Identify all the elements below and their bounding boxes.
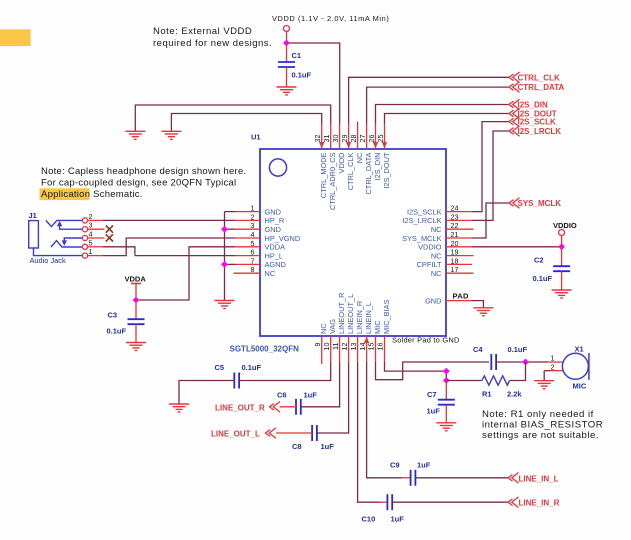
svg-text:17: 17: [451, 265, 459, 274]
svg-text:22: 22: [451, 221, 459, 230]
microphone X1: [562, 353, 588, 379]
wire I2S_DIN net: [376, 105, 510, 124]
svg-text:C4: C4: [473, 345, 483, 354]
off-page connector I2S_DIN: [509, 99, 520, 110]
capacitor C8: [312, 425, 317, 441]
junction GND net pin 7: [221, 261, 228, 268]
svg-text:NC: NC: [431, 269, 442, 278]
wire C10 to connector: [392, 501, 508, 503]
svg-text:For cap-coupled design, see 20: For cap-coupled design, see 20QFN Typica…: [41, 178, 236, 189]
svg-text:31: 31: [322, 135, 331, 143]
capacitor C4: [491, 354, 496, 370]
wire VDDA net to pin 5: [136, 247, 235, 300]
svg-text:18: 18: [451, 256, 459, 265]
svg-text:X1: X1: [575, 345, 584, 354]
svg-text:1: 1: [89, 247, 93, 256]
svg-text:CTRL_CLK: CTRL_CLK: [518, 73, 560, 82]
wire VAG net: [239, 362, 331, 381]
off-page connector LINE_OUT_R: [270, 402, 281, 413]
junction VDDD node: [283, 40, 290, 47]
U1 pin 7 (AGND): [235, 256, 286, 269]
wire CTRL_MODE to ground: [171, 114, 321, 132]
wire SYS_MCLK net: [472, 203, 509, 238]
svg-text:12: 12: [340, 343, 349, 351]
U1 pin 3 (GND): [235, 221, 281, 234]
off-page connector I2S_DOUT: [509, 108, 520, 119]
svg-text:11: 11: [331, 343, 340, 350]
ground (X1): [534, 381, 554, 389]
svg-text:VAG: VAG: [328, 319, 337, 334]
svg-text:1uF: 1uF: [417, 460, 431, 469]
capacitor C9: [411, 470, 416, 486]
U1 pin 17 (NC): [431, 265, 474, 278]
connector J1 audio jack: [29, 220, 83, 255]
U1 pin 1 (GND): [235, 204, 281, 217]
svg-text:I2S_DIN: I2S_DIN: [373, 153, 382, 181]
svg-text:13: 13: [349, 343, 358, 351]
jack pin 3: [82, 227, 87, 232]
wire GND net (pins 1,3,7): [224, 212, 226, 301]
svg-text:SYS_MCLK: SYS_MCLK: [518, 199, 562, 208]
off-page connector I2S_SCLK: [509, 116, 520, 127]
junction GND net pin 3: [221, 226, 228, 233]
wire LINEOUT_R net: [301, 362, 340, 407]
svg-text:LINEIN_R: LINEIN_R: [355, 301, 364, 334]
svg-text:1uF: 1uF: [304, 390, 318, 399]
U1 pin 5 (VDDA): [235, 239, 285, 252]
junction MIC_BIAS / C7: [443, 377, 450, 384]
svg-text:1uF: 1uF: [427, 407, 441, 416]
U1 pin 2 (HP_R): [235, 212, 284, 225]
U1 pin 28 (NC): [349, 122, 364, 164]
svg-text:C3: C3: [108, 311, 118, 320]
svg-text:VDDIO: VDDIO: [553, 221, 577, 230]
svg-text:NC: NC: [431, 251, 442, 260]
svg-text:MIC: MIC: [373, 320, 382, 334]
svg-text:1: 1: [551, 354, 555, 363]
svg-text:U1: U1: [251, 133, 261, 142]
svg-text:I2S_SCLK: I2S_SCLK: [518, 118, 556, 127]
svg-text:internal BIAS_RESISTOR: internal BIAS_RESISTOR: [482, 419, 603, 430]
svg-text:NC: NC: [355, 152, 364, 163]
svg-text:VDDA: VDDA: [125, 274, 147, 283]
svg-text:C8: C8: [292, 442, 302, 451]
svg-text:4: 4: [89, 230, 93, 239]
U1 pin 6 (HP_L): [235, 248, 283, 261]
junction VDDA node: [133, 297, 140, 304]
svg-text:C9: C9: [390, 460, 400, 469]
U1 pin 25 (I2S_DOUT): [376, 124, 391, 189]
ground (PAD): [473, 308, 493, 316]
svg-text:LINEOUT_L: LINEOUT_L: [346, 294, 355, 334]
U1 pin 12 (LINEOUT_L): [340, 294, 355, 362]
no-connect X jack pin 4: [106, 234, 113, 241]
U1 pin 18 (CPFILT): [417, 256, 472, 269]
U1 pin 11 (LINEOUT_R): [331, 293, 346, 362]
svg-text:VDDD (1.1V - 2.0V, 11mA Min): VDDD (1.1V - 2.0V, 11mA Min): [272, 14, 389, 23]
U1 pin 24 (I2S_SCLK): [407, 204, 472, 217]
U1 pin 9 (NC): [313, 323, 328, 364]
svg-text:GND: GND: [265, 207, 281, 216]
off-page connector LINE_IN_L: [508, 473, 519, 484]
svg-text:23: 23: [451, 212, 459, 221]
svg-text:settings are not suitable.: settings are not suitable.: [482, 430, 599, 441]
svg-text:PAD: PAD: [453, 291, 469, 300]
svg-text:CTRL_ADR0_CS: CTRL_ADR0_CS: [328, 152, 337, 210]
svg-text:32: 32: [313, 135, 322, 143]
svg-text:10: 10: [322, 343, 331, 351]
U1 pin 13 (LINEIN_R): [349, 301, 364, 362]
svg-text:LINE_IN_L: LINE_IN_L: [519, 474, 559, 483]
wire CTRL_CLK net: [349, 77, 509, 123]
svg-text:2: 2: [251, 212, 255, 221]
wire I2S_DOUT net: [385, 114, 510, 124]
svg-text:27: 27: [358, 135, 367, 143]
svg-text:LINEIN_L: LINEIN_L: [364, 302, 373, 334]
svg-text:24: 24: [451, 204, 459, 213]
wire I2S_LRCLK net: [472, 131, 509, 220]
wire LINEOUT_L net: [317, 362, 349, 433]
svg-text:HP_VGND: HP_VGND: [265, 234, 301, 243]
off-page connector LINE_OUT_L: [266, 428, 277, 439]
svg-text:MIC: MIC: [573, 382, 587, 391]
svg-text:Audio Jack: Audio Jack: [30, 256, 66, 265]
U1 pin 26 (I2S_DIN): [367, 124, 382, 181]
U1 pin 19 (NC): [431, 248, 474, 261]
no-connect X jack pin 3: [106, 226, 113, 233]
U1 pin PAD (GND): [425, 296, 472, 305]
junction MIC_BIAS corner: [443, 368, 450, 375]
svg-text:5: 5: [89, 238, 93, 247]
off-page connector I2S_LRCLK: [509, 126, 520, 137]
ground (C5): [169, 404, 189, 412]
wire HP_VGND net (jack 1 to pin 4): [103, 238, 235, 256]
U1 pin 30 (VDDD): [331, 124, 346, 174]
off-page connector SYS_MCLK: [509, 198, 520, 209]
svg-text:19: 19: [451, 248, 459, 257]
svg-text:NC: NC: [265, 269, 276, 278]
wire R1 to X1 node: [510, 362, 526, 381]
svg-text:30: 30: [331, 135, 340, 143]
svg-text:SGTL5000_32QFN: SGTL5000_32QFN: [230, 344, 300, 353]
U1 pin 16 (MIC_BIAS): [376, 299, 391, 362]
svg-text:29: 29: [340, 135, 349, 143]
svg-text:C2: C2: [534, 256, 544, 265]
svg-text:VDDD: VDDD: [337, 153, 346, 174]
jack pin 2: [82, 218, 87, 223]
jack pin 1: [82, 253, 87, 258]
svg-text:25: 25: [376, 135, 385, 143]
svg-text:LINE_OUT_R: LINE_OUT_R: [215, 403, 265, 412]
wire C5 to ground: [179, 381, 234, 405]
svg-text:CTRL_MODE: CTRL_MODE: [319, 152, 328, 198]
wire C4 to X1: [496, 361, 548, 363]
svg-text:C6: C6: [277, 390, 287, 399]
wire X1 pin 2 to ground: [550, 370, 563, 372]
svg-text:SYS_MCLK: SYS_MCLK: [402, 234, 442, 243]
wire CTRL_DATA net: [367, 87, 509, 123]
svg-text:HP_L: HP_L: [265, 251, 284, 260]
svg-text:0.1uF: 0.1uF: [107, 327, 127, 336]
off-page connector CTRL_DATA: [509, 82, 520, 93]
note: capless headphone design (highlighted word Application): [40, 188, 90, 200]
svg-text:3: 3: [251, 221, 255, 230]
U1 pin 15 (MIC): [367, 320, 382, 362]
svg-text:NC: NC: [319, 323, 328, 334]
svg-text:CTRL_CLK: CTRL_CLK: [346, 152, 355, 190]
svg-text:Application Schematic.: Application Schematic.: [41, 189, 143, 200]
ground (CTRL_MODE): [161, 131, 181, 139]
svg-text:I2S_DOUT: I2S_DOUT: [382, 152, 391, 189]
off-page connector CTRL_CLK: [509, 72, 520, 83]
wire HP_R net (jack 2 to pin 2): [103, 219, 235, 221]
wire MIC_BIAS net (pin 16): [385, 362, 447, 381]
svg-text:I2S_DIN: I2S_DIN: [518, 101, 548, 110]
svg-text:21: 21: [451, 230, 459, 239]
wire CTRL_ADR0_CS to ground: [135, 105, 330, 131]
svg-text:6: 6: [251, 248, 255, 257]
wire VDDD net to pin 30: [287, 43, 340, 124]
ground (C3): [126, 343, 146, 351]
svg-text:VDDIO: VDDIO: [418, 243, 442, 252]
wire I2S_SCLK net: [472, 122, 509, 212]
jack pin 5: [82, 244, 87, 249]
svg-text:CPFILT: CPFILT: [417, 260, 442, 269]
junction VDDIO node: [558, 243, 565, 250]
svg-text:1: 1: [251, 204, 255, 213]
svg-text:20: 20: [451, 239, 459, 248]
svg-text:LINE_OUT_L: LINE_OUT_L: [211, 430, 260, 439]
svg-text:LINEOUT_R: LINEOUT_R: [337, 293, 346, 334]
svg-text:8: 8: [251, 265, 255, 274]
off-page connector LINE_IN_R: [508, 497, 519, 508]
svg-text:7: 7: [251, 256, 255, 265]
wire MIC net (pin 15): [376, 362, 490, 380]
svg-text:GND: GND: [425, 296, 441, 305]
wire VDDIO net: [472, 246, 562, 248]
capacitor C3: [135, 300, 137, 319]
svg-text:0.1uF: 0.1uF: [292, 71, 312, 80]
svg-text:I2S_LRCLK: I2S_LRCLK: [518, 127, 562, 136]
wire LINEIN_R net: [358, 362, 380, 502]
svg-text:CTRL_DATA: CTRL_DATA: [364, 152, 373, 194]
ground (CTRL_ADR0_CS): [125, 131, 145, 139]
capacitor C2: [561, 247, 563, 266]
svg-text:2: 2: [89, 212, 93, 221]
U1 pin 14 (LINEIN_L): [358, 302, 373, 362]
pin-1 indicator circle: [269, 159, 286, 176]
svg-text:28: 28: [349, 135, 358, 143]
ground (AGND net): [215, 301, 235, 309]
svg-text:1uF: 1uF: [321, 442, 335, 451]
U1 pin 32 (CTRL_MODE): [313, 124, 328, 199]
svg-text:4: 4: [251, 230, 255, 239]
svg-text:C7: C7: [427, 390, 437, 399]
wire C9 to connector: [415, 477, 508, 479]
svg-text:C10: C10: [362, 514, 376, 523]
U1 pin 27 (CTRL_DATA): [358, 124, 373, 195]
U1 pin 31 (CTRL_ADR0_CS): [322, 124, 337, 211]
svg-text:0.1uF: 0.1uF: [242, 363, 262, 372]
U1 pin 20 (VDDIO): [418, 239, 472, 252]
resistor R1: [446, 380, 482, 382]
ground (C2): [552, 290, 572, 298]
svg-text:J1: J1: [29, 211, 37, 220]
svg-text:14: 14: [358, 343, 367, 351]
svg-text:AGND: AGND: [265, 260, 286, 269]
U1 pin 21 (SYS_MCLK): [402, 230, 472, 243]
ground (C1): [277, 87, 297, 95]
svg-text:2.2k: 2.2k: [507, 390, 522, 399]
svg-text:CTRL_DATA: CTRL_DATA: [518, 83, 565, 92]
svg-text:16: 16: [376, 343, 385, 351]
svg-text:VDDA: VDDA: [265, 243, 286, 252]
svg-text:required for new designs.: required for new designs.: [153, 38, 272, 49]
svg-text:I2S_SCLK: I2S_SCLK: [407, 207, 442, 216]
op-amp/codec IC U1 SGTL5000_32QFN body: [260, 149, 446, 336]
U1 pin 29 (CTRL_CLK): [340, 124, 355, 191]
highlight marker (left edge): [0, 29, 31, 46]
wire HP_L net (jack 5 to pin 6): [103, 247, 135, 256]
svg-text:5: 5: [251, 239, 255, 248]
svg-text:3: 3: [89, 221, 93, 230]
svg-text:Note: R1 only needed if: Note: R1 only needed if: [482, 409, 594, 420]
svg-text:LINE_IN_R: LINE_IN_R: [519, 499, 560, 508]
svg-text:MIC_BIAS: MIC_BIAS: [382, 299, 391, 334]
svg-text:1uF: 1uF: [391, 514, 405, 523]
svg-text:GND: GND: [265, 225, 281, 234]
capacitor C1: [286, 43, 288, 62]
U1 pin 4 (HP_VGND): [235, 230, 300, 243]
U1 pin 22 (NC): [431, 221, 474, 234]
svg-text:C1: C1: [292, 51, 302, 60]
svg-text:C5: C5: [215, 363, 225, 372]
capacitor C10: [387, 494, 392, 510]
wire PAD to ground: [472, 301, 483, 308]
svg-text:HP_R: HP_R: [265, 216, 285, 225]
wire LINEIN_L net: [367, 362, 402, 478]
svg-text:15: 15: [367, 343, 376, 351]
junction C4/R1/X1 node: [522, 359, 529, 366]
svg-text:Note: Capless headphone design: Note: Capless headphone design shown her…: [41, 166, 246, 177]
svg-text:0.1uF: 0.1uF: [508, 345, 528, 354]
capacitor C6: [296, 399, 301, 415]
svg-text:I2S_LRCLK: I2S_LRCLK: [402, 216, 441, 225]
capacitor C5: [234, 373, 239, 389]
U1 pin 8 (NC): [234, 265, 276, 278]
jack pin 4: [82, 235, 87, 240]
svg-text:Note: External VDDD: Note: External VDDD: [153, 26, 252, 37]
U1 pin 23 (I2S_LRCLK): [402, 212, 472, 225]
svg-text:9: 9: [313, 343, 322, 347]
ground (C7): [436, 423, 456, 431]
U1 pin 10 (VAG): [322, 319, 337, 362]
svg-text:0.1uF: 0.1uF: [533, 274, 553, 283]
svg-text:R1: R1: [482, 390, 492, 399]
capacitor C7: [445, 381, 447, 400]
svg-text:NC: NC: [431, 225, 442, 234]
svg-text:26: 26: [367, 135, 376, 143]
